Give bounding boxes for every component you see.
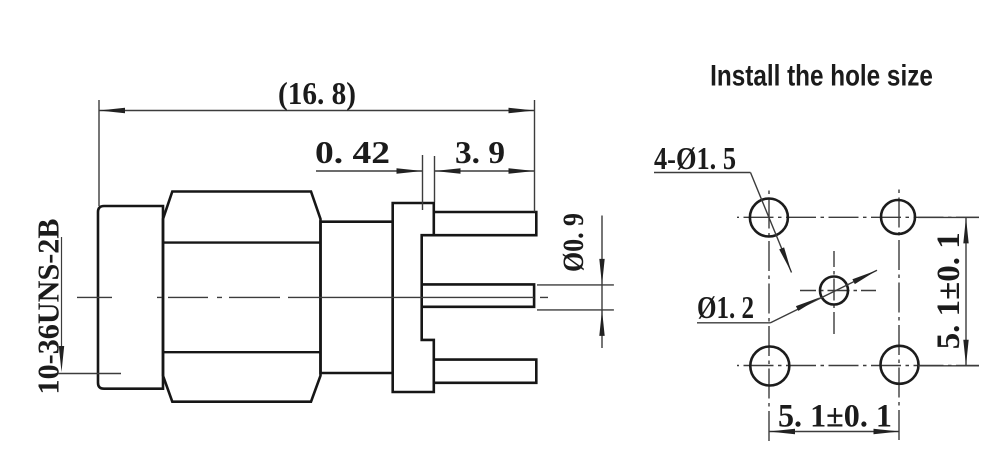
dimension (16.8) arrow right (509, 108, 535, 113)
label dia1.2 underline (697, 322, 771, 324)
dimension 0.42 extension line (422, 155, 424, 210)
dimension dia 0.9 line (601, 216, 603, 349)
hole top-right (881, 200, 915, 234)
dimension (16.8) line (99, 110, 535, 112)
label dia1.2 arrow at hole (796, 297, 821, 311)
center hole vertical centerline (833, 251, 835, 338)
svg-text:0. 42: 0. 42 (315, 134, 390, 170)
dimension 5.1 right extension line bottom (918, 365, 979, 367)
hole bottom-left (750, 347, 789, 386)
svg-text:4-Ø1. 5: 4-Ø1. 5 (654, 140, 736, 176)
svg-text:Install the hole size: Install the hole size (710, 58, 933, 92)
dimension (16.8) extension line right (534, 100, 536, 212)
svg-text:3. 9: 3. 9 (455, 134, 505, 170)
bottom ground leg (434, 360, 537, 383)
mounting flange with notch (393, 203, 434, 392)
connector barrel (threaded end) (98, 206, 163, 389)
dimension 5.1 right arrow bottom (963, 340, 968, 366)
label 4-dia1.5 leader arrow (779, 247, 791, 272)
pin diameter extension line bottom (537, 309, 614, 311)
hole top-left (750, 199, 788, 237)
hex nut body (163, 192, 321, 402)
dimension (16.8) arrow left (99, 108, 125, 113)
center pin (422, 284, 534, 306)
center hole horizontal centerline (800, 290, 876, 292)
hole pattern horizontal centerline top row (737, 216, 979, 218)
dimension 3.9 extension line (434, 156, 436, 202)
rear barrel (321, 222, 393, 373)
dimension (16.8) extension line left (98, 100, 100, 206)
hex nut face line lower (163, 351, 321, 353)
svg-text:10-36UNS-2B: 10-36UNS-2B (31, 219, 66, 395)
dimension 3.9 arrow right (509, 168, 535, 173)
dimension 5.1 right arrow top (963, 217, 968, 243)
dimension 5.1 right line (965, 217, 967, 365)
dimension 0.42 line (316, 170, 423, 172)
label 4-dia1.5 underline (654, 172, 751, 174)
hole pattern vertical centerline right column (898, 188, 900, 443)
dimension 3.9 arrow left (435, 168, 461, 173)
svg-text:Ø1. 2: Ø1. 2 (697, 289, 754, 325)
thread leader arrow (59, 346, 64, 372)
top ground leg (434, 212, 537, 235)
label dia1.2 arrow at end (852, 270, 877, 284)
svg-text:Ø0. 9: Ø0. 9 (557, 213, 590, 272)
hole pattern vertical centerline left column (768, 189, 770, 443)
dimension dia 0.9 arrow bottom (599, 310, 604, 336)
thread leader horizontal line (58, 373, 121, 375)
centerline axis (77, 296, 548, 298)
dimension 5.1 bottom line (769, 431, 900, 433)
svg-text:5. 1±0. 1: 5. 1±0. 1 (931, 232, 967, 349)
pin diameter extension line top (537, 284, 614, 286)
label dia1.2 leader diagonal (771, 270, 878, 323)
hole bottom-right (881, 346, 919, 384)
dimension 5.1 bottom arrow right (874, 429, 900, 434)
dimension 3.9 line (435, 170, 535, 172)
dimension 0.42 arrow (397, 168, 423, 173)
hole pattern horizontal centerline bottom row (737, 365, 979, 367)
svg-text:(16. 8): (16. 8) (278, 75, 356, 111)
thread leader line (61, 237, 63, 350)
dimension dia 0.9 arrow top (599, 259, 604, 285)
hex nut face line upper (163, 241, 321, 243)
dimension 5.1 right extension line top (918, 216, 979, 218)
svg-text:5. 1±0. 1: 5. 1±0. 1 (778, 399, 892, 435)
dimension 5.1 bottom arrow left (769, 429, 795, 434)
label 4-dia1.5 leader diagonal (751, 173, 792, 273)
center hole (820, 277, 848, 305)
